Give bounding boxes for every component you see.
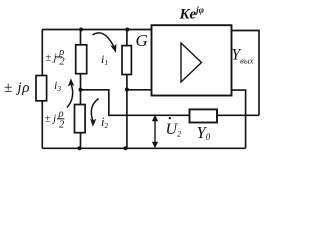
svg-text:Y0: Y0: [197, 123, 211, 142]
resistor G: [122, 46, 131, 75]
svg-text:i1: i1: [101, 52, 108, 67]
svg-text:i3: i3: [54, 78, 61, 93]
amplifier box: [152, 25, 232, 95]
svg-text:2: 2: [59, 56, 65, 67]
wire amplifier output to Yvyh loop: [232, 31, 260, 116]
node dot bottom G branch: [124, 146, 128, 150]
svg-text:2: 2: [59, 120, 65, 131]
wire top rail: [42, 29, 152, 31]
svg-text:Yвых: Yвых: [232, 47, 254, 66]
voltage arrow U2 double headed: [152, 115, 158, 148]
svg-text:Kejφ: Kejφ: [179, 5, 204, 23]
svg-text:i2: i2: [101, 115, 108, 130]
wire middle node step to bottom network: [81, 90, 260, 116]
fraction bar lower: [57, 118, 64, 120]
wire amplifier output drop to bottom rail: [232, 90, 246, 148]
admittance Y0 box: [190, 109, 218, 122]
resistor ±jρ/2 lower: [75, 105, 86, 133]
wire middle branch vertical: [80, 30, 82, 149]
label ± jρ/2 lower: [45, 109, 65, 131]
fraction bar upper: [56, 56, 63, 58]
current arrow i2: [90, 99, 99, 127]
node dot top G branch: [125, 28, 129, 32]
node dot bottom middle branch: [78, 146, 82, 150]
wire left branch vertical: [41, 30, 43, 149]
node dot G branch center: [125, 88, 129, 92]
resistor ±jρ left: [36, 76, 47, 101]
current arrow i1: [93, 33, 117, 53]
amplifier triangle: [181, 43, 202, 82]
wire G branch vertical: [126, 30, 128, 149]
node dot middle branch center: [79, 88, 83, 92]
svg-text:± jρ: ± jρ: [4, 80, 30, 96]
svg-text:U2: U2: [166, 121, 182, 139]
node dot top middle branch: [79, 28, 83, 32]
svg-text:ρ: ρ: [58, 109, 64, 120]
label ± jρ/2 upper: [45, 47, 65, 67]
svg-text:G: G: [136, 31, 148, 50]
svg-text:± j: ± j: [45, 53, 56, 64]
current arrow i3: [67, 78, 74, 107]
svg-text:± j: ± j: [45, 113, 56, 124]
wire bottom rail: [42, 147, 245, 149]
wire amplifier input: [127, 89, 152, 91]
resistor ±jρ/2 upper: [76, 45, 87, 74]
